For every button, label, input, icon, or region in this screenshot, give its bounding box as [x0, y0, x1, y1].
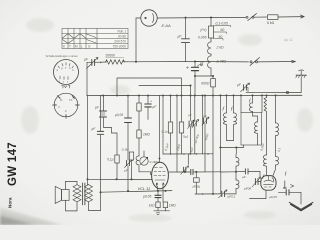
- anode line to output transformer: [88, 179, 89, 184]
- AVC line (lower): [139, 85, 191, 87]
- link y=172: [221, 95, 237, 172]
- series resistor chain from top line down (x=211): [210, 18, 212, 27]
- IF transformer 1 coils: [223, 95, 233, 140]
- svg-text:20000: 20000: [106, 54, 116, 58]
- resistor box on x=117: [115, 155, 119, 163]
- choke L2: [208, 54, 211, 68]
- svg-text:6 kΩ: 6 kΩ: [267, 21, 275, 25]
- svg-text:0,1MΩ: 0,1MΩ: [150, 160, 160, 164]
- bus junction nodes: [102, 94, 277, 96]
- magic eye / rectifier tube V2: [261, 176, 276, 191]
- svg-text:600Ω: 600Ω: [201, 81, 210, 85]
- trimmer a: [188, 120, 195, 129]
- svg-text:µF··: µF··: [242, 175, 248, 179]
- svg-text:Ruh.1: Ruh.1: [117, 30, 126, 34]
- svg-text:750-2000: 750-2000: [113, 45, 127, 49]
- svg-text:200-570: 200-570: [114, 40, 126, 44]
- svg-text:Nora: Nora: [8, 197, 13, 208]
- svg-text:1MΩ: 1MΩ: [143, 133, 150, 137]
- IF transformer 2 (shield box): [241, 113, 262, 146]
- tube socket top view (pin diagram): [54, 60, 79, 89]
- svg-text:TA: TA: [69, 98, 73, 102]
- coil on x=139: [136, 156, 151, 175]
- tuning arrows (italic f): [222, 98, 287, 180]
- svg-text:50: 50: [219, 35, 223, 39]
- svg-text:T: T: [69, 45, 71, 49]
- cathode line below tube: [101, 191, 173, 193]
- trimmer c: [202, 117, 209, 126]
- mains switch (top): [246, 14, 267, 21]
- cathode bypass cap: [157, 191, 159, 195]
- bottom link y=194: [195, 193, 221, 195]
- resistor box mid (x=131.5): [129, 152, 133, 160]
- vertical return wire: [100, 179, 102, 210]
- value labels for chain: [198, 22, 228, 64]
- svg-text:ƒ: ƒ: [284, 171, 287, 177]
- smoothing capacitor drop from top line: [185, 18, 187, 62]
- svg-text:VCL 11: VCL 11: [138, 186, 151, 191]
- rotated small value labels: [164, 113, 282, 155]
- tube cathode to line: [157, 186, 163, 202]
- V2 right small cap + phone arrow: [284, 181, 286, 188]
- electrolytic filter capacitor (+): [186, 61, 205, 71]
- svg-text:+: +: [150, 100, 152, 104]
- oscillator coil lower: [236, 179, 239, 189]
- left drop x=87 (plain): [87, 96, 89, 180]
- volume potentiometer (circle): [143, 151, 145, 157]
- V2 bottom wiring: [250, 190, 267, 198]
- lamp/indicator tube E.AA (top): [141, 10, 171, 28]
- choke L1: [208, 38, 211, 54]
- second socket / alignment diagram: [53, 93, 80, 118]
- svg-text:µF08: µF08: [244, 187, 251, 191]
- svg-text:µ0,05: µ0,05: [269, 195, 277, 199]
- svg-text:µF: µF: [203, 114, 207, 118]
- svg-text:µF: µF: [188, 113, 192, 117]
- svg-text:µ0,05: µ0,05: [143, 195, 151, 199]
- wire: lamp left lead down: [136, 18, 141, 62]
- wire y=61.8 to mains switch: [123, 61, 249, 63]
- detector chain x=266.5: [266, 95, 268, 97]
- svg-text:F: F: [59, 105, 61, 109]
- cathode resistors: [156, 202, 160, 208]
- bottom-left page shadow: [0, 207, 62, 225]
- svg-text:Ap 41: Ap 41: [283, 38, 293, 42]
- svg-text:(I+I): (I+I): [200, 28, 206, 32]
- dropper resistor (top right box): [267, 15, 278, 25]
- drop x=103.5 with cap, bend to x=117: [104, 96, 118, 156]
- svg-text:60: 60: [221, 28, 225, 32]
- speaker wiring: [66, 181, 78, 189]
- node on top line: [185, 17, 187, 19]
- grid trimmer capacitor (top left): [84, 57, 103, 68]
- svg-text:Schalterstellungen v.unten: Schalterstellungen v.unten: [46, 54, 79, 58]
- heater ballast / barretter symbol (right): [296, 70, 307, 78]
- svg-text:E.AA: E.AA: [162, 23, 171, 28]
- wire to mains plug: [278, 16, 303, 18]
- svg-text:ƒ: ƒ: [231, 106, 234, 112]
- antenna coil chain x=275.5: [276, 95, 279, 137]
- svg-text:0,1-0,05: 0,1-0,05: [216, 22, 229, 26]
- padder trimmer on y=194: [219, 190, 236, 199]
- electrolytic on x=148: [147, 96, 149, 120]
- output coupling cap to earth: [278, 191, 285, 193]
- title text Nora GW147 (left margin, rotated): [7, 142, 19, 208]
- antenna trimmer on heater line: [237, 83, 250, 92]
- grid leak resistor box (below line): [195, 172, 197, 178]
- switch-position table: [62, 29, 128, 49]
- svg-text:20-80: 20-80: [118, 35, 126, 39]
- trimmer on x=128: [125, 159, 133, 167]
- loudspeaker: [55, 186, 69, 203]
- output tube VCL11 (V1, oval envelope): [152, 162, 169, 188]
- svg-text:(5kΩ): (5kΩ): [193, 184, 201, 188]
- mains on/off switch (lower): [250, 58, 295, 66]
- oscillator feed line: [220, 145, 243, 148]
- callout leader lines: [213, 25, 230, 40]
- svg-text:1MΩ: 1MΩ: [169, 203, 176, 207]
- trimmer b: [192, 120, 199, 129]
- svg-text:5µ1: 5µ1: [183, 135, 189, 139]
- V2 grid trimmer (left): [242, 175, 261, 191]
- trimmer d (inline): [181, 166, 189, 174]
- svg-text:µ0,06: µ0,06: [115, 113, 123, 117]
- output transformer (X-style windings): [73, 185, 93, 202]
- oscillator coil upper: [236, 153, 239, 172]
- svg-text:0,006: 0,006: [198, 36, 207, 40]
- svg-text:M: M: [75, 45, 78, 49]
- drop x=128 with cap, down to trimmer: [127, 96, 129, 161]
- coupling cap (inline on signal line): [191, 169, 193, 174]
- diagonal marks in cells: [63, 34, 86, 38]
- svg-text:1kΩ: 1kΩ: [149, 203, 155, 207]
- faint paper mottling: [21, 18, 313, 222]
- svg-text:ƒ: ƒ: [222, 106, 225, 112]
- svg-text:GW 147: GW 147: [7, 142, 19, 186]
- earth / aerial ground chevron: [289, 202, 313, 210]
- drop x=139 with two resistor boxes, coil: [138, 96, 140, 104]
- secondary winding: [85, 185, 93, 202]
- primary winding: [73, 185, 81, 202]
- screen/grid drops x=163..213: [162, 96, 164, 155]
- resistor R (vertical box): [209, 26, 214, 38]
- AVC line (upper): [117, 78, 182, 96]
- osc coupling cap to V2 grid: [236, 170, 245, 172]
- wire: top supply line: [157, 16, 245, 19]
- svg-text:+: +: [186, 65, 189, 71]
- coupling row right of V1: signal line: [169, 171, 221, 173]
- screen resistor 20000 (zigzag): [106, 60, 125, 64]
- cathode resistor 600 ohm: [211, 79, 216, 87]
- svg-text:0,1M: 0,1M: [122, 148, 129, 152]
- transformer core: [82, 183, 84, 205]
- mains plug tip (lower): [292, 60, 296, 63]
- svg-text:µF0,1: µF0,1: [228, 195, 236, 199]
- svg-text:Z: Z: [65, 109, 67, 113]
- svg-text:0,1µ: 0,1µ: [162, 130, 168, 134]
- long drop x=99.5 with decoupling cap: [100, 96, 102, 180]
- svg-text:0,1µ: 0,1µ: [107, 158, 113, 162]
- horizontal link y=154: [163, 153, 213, 155]
- main chassis bus: [87, 94, 302, 96]
- svg-text:2 kΩ: 2 kΩ: [216, 46, 225, 50]
- svg-text:L: L: [81, 45, 83, 49]
- grid feed drops into tube V1: [159, 96, 161, 163]
- small marks below socket: [62, 86, 71, 88]
- capacitor C (on drop): [182, 39, 190, 43]
